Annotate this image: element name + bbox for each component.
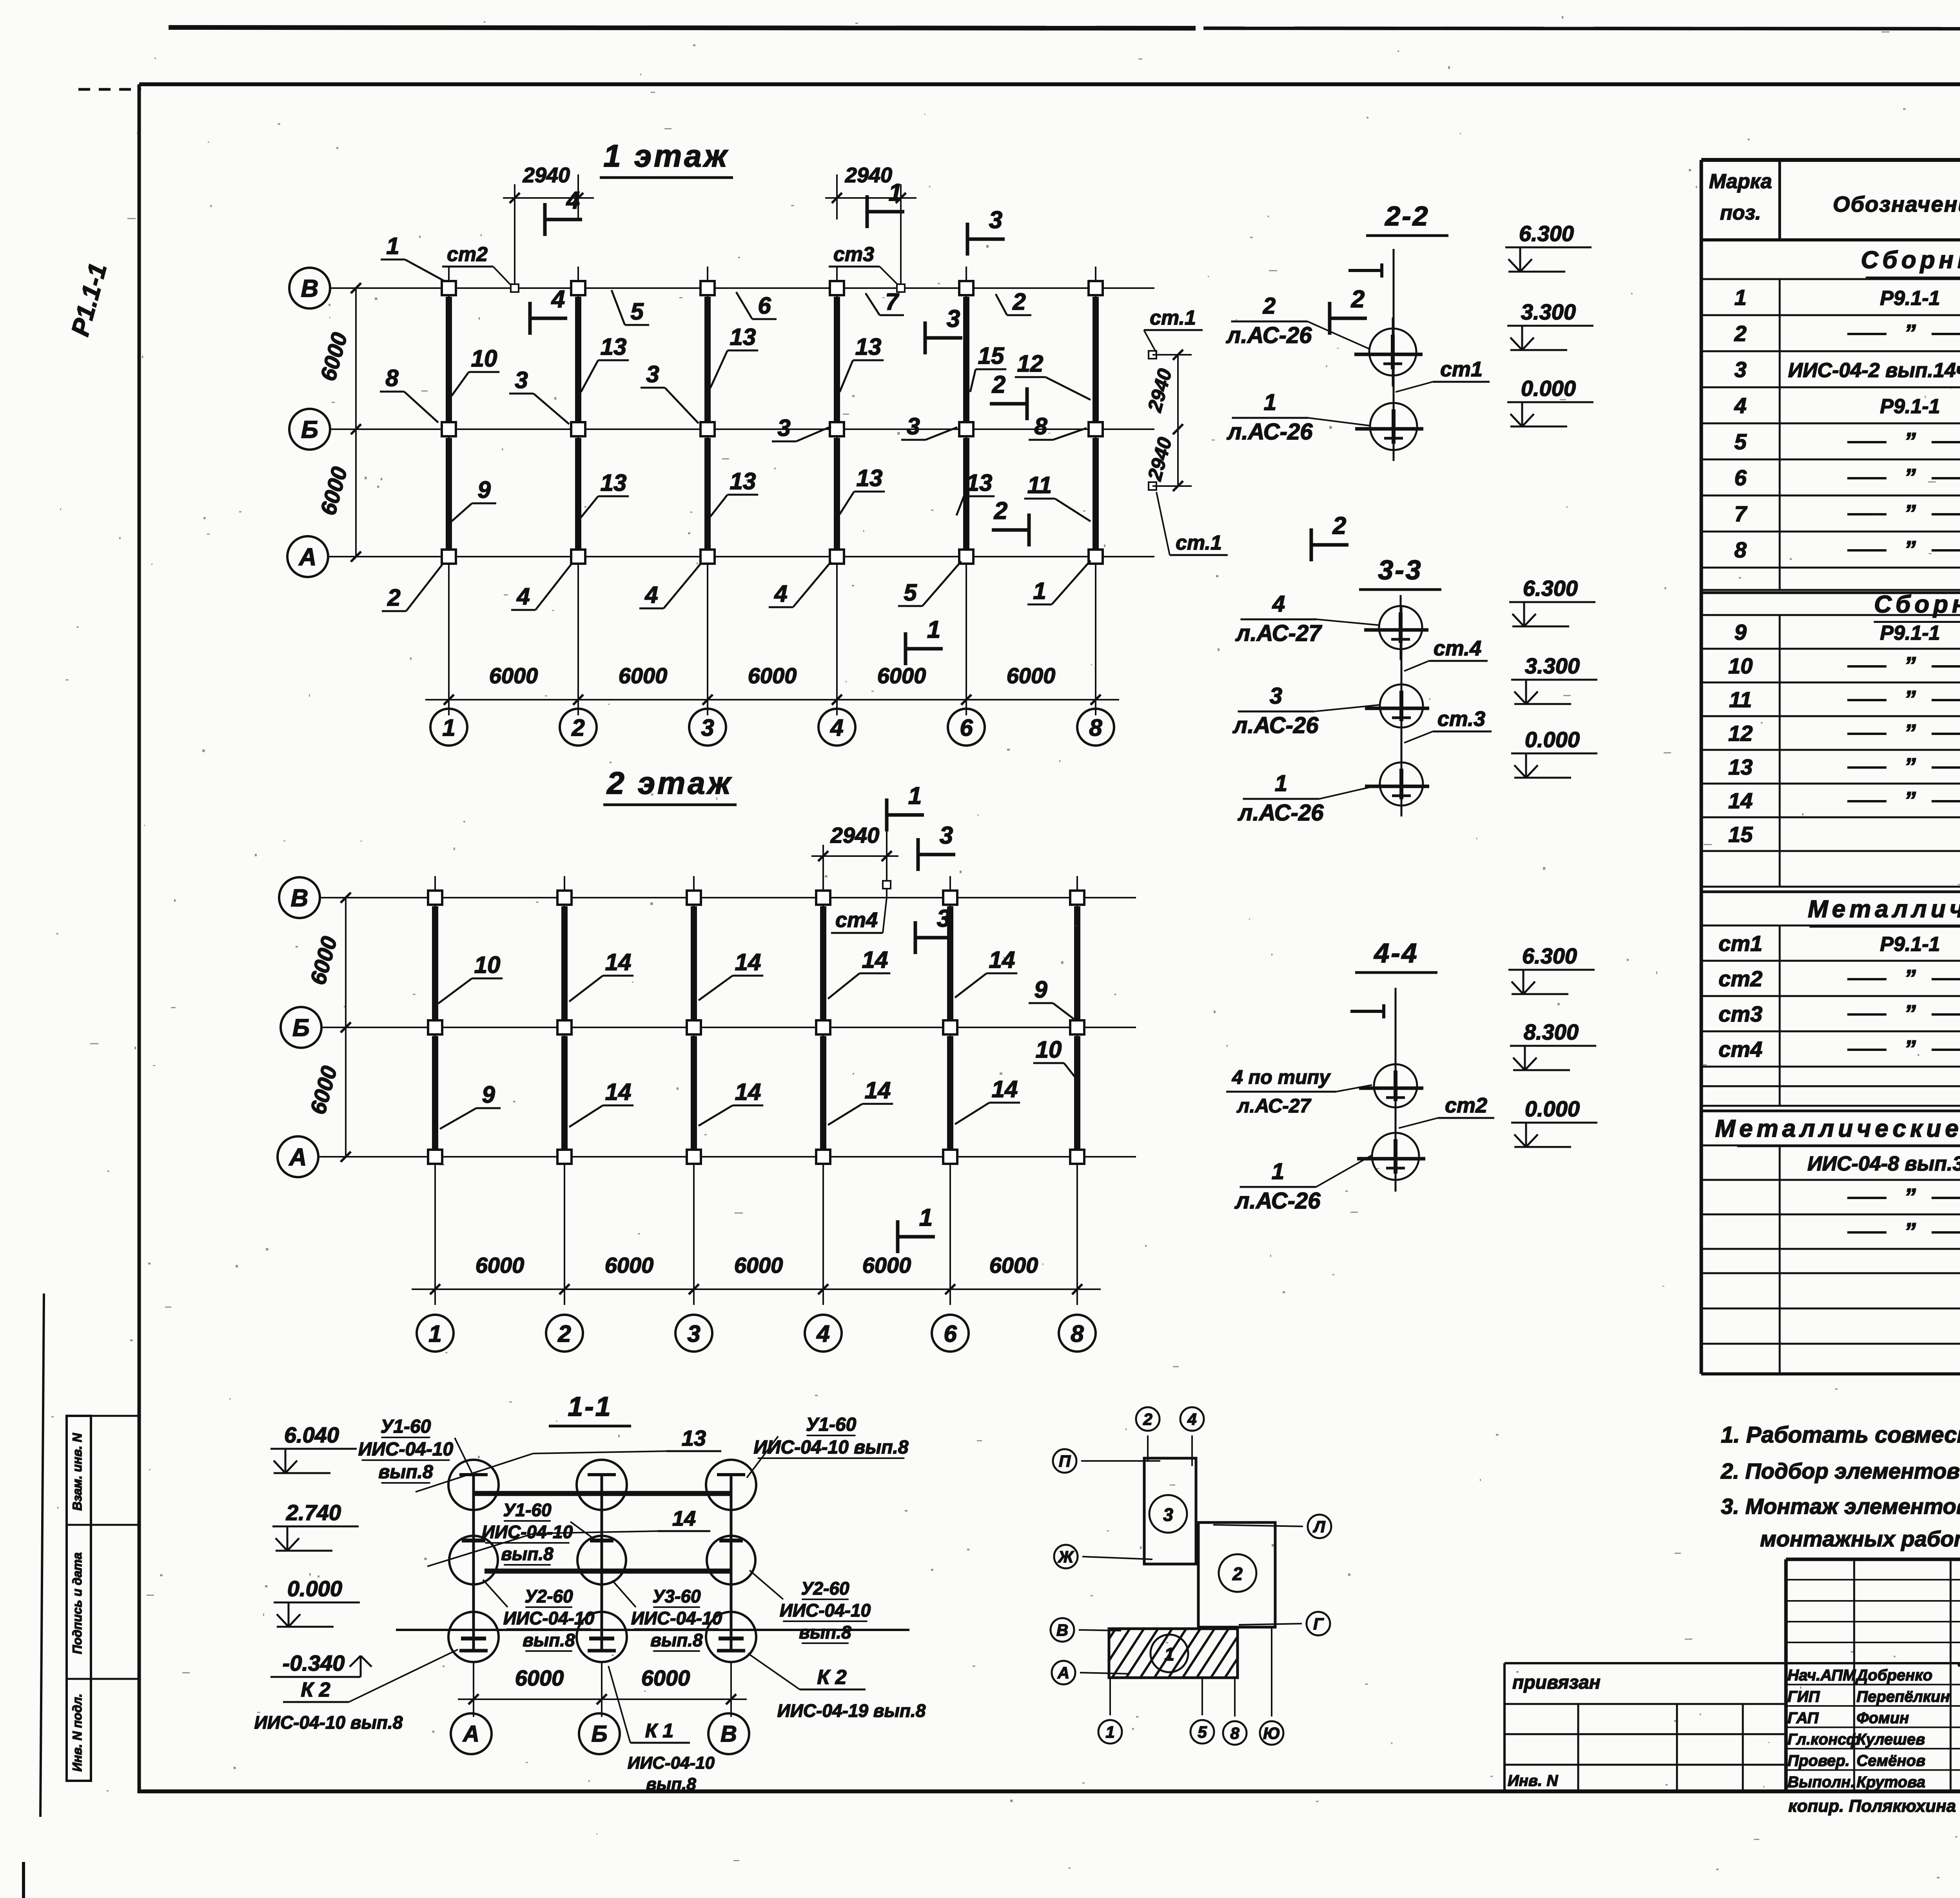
svg-text:8: 8 xyxy=(1034,413,1047,439)
svg-text:11: 11 xyxy=(1027,472,1052,498)
svg-text:1: 1 xyxy=(1033,578,1046,604)
svg-text:10: 10 xyxy=(471,345,497,372)
svg-text:”: ” xyxy=(1904,720,1916,746)
svg-text:Р9.1-1: Р9.1-1 xyxy=(1880,287,1940,310)
svg-text:Гл.консф: Гл.консф xyxy=(1788,1731,1860,1748)
svg-text:Г: Г xyxy=(1313,1615,1324,1633)
svg-text:ГАП: ГАП xyxy=(1788,1709,1819,1727)
svg-text:Ю: Ю xyxy=(1263,1724,1280,1742)
svg-text:”: ” xyxy=(1904,1218,1916,1245)
svg-text:2: 2 xyxy=(557,1321,571,1347)
svg-text:6: 6 xyxy=(944,1321,957,1347)
svg-text:Ж: Ж xyxy=(1058,1548,1074,1566)
svg-text:ст.3: ст.3 xyxy=(1437,707,1485,731)
svg-text:вып.8: вып.8 xyxy=(501,1544,554,1564)
svg-text:3: 3 xyxy=(1163,1504,1173,1525)
svg-text:Фомин: Фомин xyxy=(1857,1709,1909,1727)
svg-text:6: 6 xyxy=(960,715,973,741)
svg-text:4 по типу: 4 по типу xyxy=(1232,1066,1331,1088)
svg-text:8: 8 xyxy=(1071,1321,1084,1347)
svg-text:4: 4 xyxy=(830,715,843,741)
svg-text:2: 2 xyxy=(1012,289,1025,315)
svg-text:3: 3 xyxy=(989,207,1002,234)
svg-text:”: ” xyxy=(1904,787,1916,813)
svg-text:ст.1: ст.1 xyxy=(1176,532,1222,554)
svg-text:”: ” xyxy=(1904,320,1916,346)
svg-text:Металлические монтажные дета: Металлические монтажные детали (кг) xyxy=(1715,1115,1960,1142)
svg-text:14: 14 xyxy=(672,1507,696,1530)
svg-text:”: ” xyxy=(1904,464,1916,490)
svg-text:6000: 6000 xyxy=(748,663,797,688)
svg-text:4: 4 xyxy=(516,583,530,610)
svg-text:5: 5 xyxy=(630,298,644,325)
svg-text:6.300: 6.300 xyxy=(1519,221,1574,246)
svg-text:ИИС-04-19 вып.8: ИИС-04-19 вып.8 xyxy=(777,1700,926,1721)
svg-text:”: ” xyxy=(1904,753,1916,780)
svg-text:2: 2 xyxy=(1232,1564,1243,1584)
svg-text:Б: Б xyxy=(301,416,318,443)
svg-text:А: А xyxy=(462,1721,479,1747)
svg-text:В: В xyxy=(1056,1621,1068,1639)
svg-text:Р9.1-1: Р9.1-1 xyxy=(1880,395,1940,418)
svg-text:3: 3 xyxy=(940,822,953,849)
svg-text:13: 13 xyxy=(857,465,883,491)
svg-text:А: А xyxy=(289,1144,307,1171)
svg-text:ст3: ст3 xyxy=(1719,1002,1762,1026)
svg-text:13: 13 xyxy=(730,324,756,350)
svg-text:6.300: 6.300 xyxy=(1523,576,1578,601)
svg-text:1: 1 xyxy=(386,233,399,259)
svg-text:”: ” xyxy=(1904,686,1916,712)
svg-text:л.АС-26: л.АС-26 xyxy=(1226,323,1312,348)
svg-text:Добренко: Добренко xyxy=(1855,1667,1933,1684)
svg-text:ст1: ст1 xyxy=(1719,931,1762,956)
svg-text:6.300: 6.300 xyxy=(1522,944,1577,968)
svg-text:Подпись и дата: Подпись и дата xyxy=(70,1552,84,1654)
svg-text:Обозначение: Обозначение xyxy=(1833,192,1960,216)
svg-text:”: ” xyxy=(1904,536,1916,563)
svg-text:3-3: 3-3 xyxy=(1378,555,1422,585)
svg-text:ИИС-04-10: ИИС-04-10 xyxy=(628,1753,715,1773)
svg-text:л.АС-26: л.АС-26 xyxy=(1227,419,1313,445)
svg-text:А: А xyxy=(1057,1664,1069,1682)
svg-text:0.000: 0.000 xyxy=(1521,376,1576,401)
svg-text:3: 3 xyxy=(1734,357,1746,382)
svg-text:”: ” xyxy=(1904,652,1916,679)
svg-text:8: 8 xyxy=(1230,1724,1240,1742)
svg-text:В: В xyxy=(720,1721,737,1747)
svg-text:Семёнов: Семёнов xyxy=(1857,1752,1926,1769)
svg-text:9: 9 xyxy=(1734,620,1746,644)
svg-text:4: 4 xyxy=(644,582,658,608)
svg-text:К 2: К 2 xyxy=(817,1666,846,1689)
svg-text:3.300: 3.300 xyxy=(1521,299,1576,324)
svg-text:9: 9 xyxy=(482,1081,495,1108)
svg-text:6000: 6000 xyxy=(734,1253,783,1277)
svg-text:Б: Б xyxy=(292,1014,310,1042)
svg-text:1: 1 xyxy=(1734,285,1746,310)
svg-text:ст4: ст4 xyxy=(1719,1037,1762,1062)
svg-text:1: 1 xyxy=(919,1204,933,1231)
svg-text:-0.340: -0.340 xyxy=(283,1651,345,1675)
svg-text:10: 10 xyxy=(1728,653,1753,678)
svg-text:1: 1 xyxy=(889,179,902,206)
svg-text:ст2: ст2 xyxy=(1445,1094,1487,1117)
svg-text:6000: 6000 xyxy=(605,1253,654,1277)
svg-text:Взам. инв. N: Взам. инв. N xyxy=(70,1433,84,1511)
svg-text:13: 13 xyxy=(966,470,993,496)
svg-text:9: 9 xyxy=(1034,976,1047,1003)
svg-text:10: 10 xyxy=(474,952,501,978)
svg-text:2: 2 xyxy=(994,497,1007,524)
svg-text:4: 4 xyxy=(1734,393,1746,418)
svg-text:3: 3 xyxy=(646,361,659,387)
svg-text:ИИС-04-8 вып.3 Д.12: ИИС-04-8 вып.3 Д.12 xyxy=(1808,1152,1960,1175)
svg-text:У2-60: У2-60 xyxy=(524,1586,573,1606)
svg-text:6000: 6000 xyxy=(475,1253,524,1277)
svg-text:”: ” xyxy=(1904,500,1916,526)
svg-text:ИИС-04-10 вып.8: ИИС-04-10 вып.8 xyxy=(753,1437,908,1458)
svg-text:копир. Полякюхина: копир. Полякюхина xyxy=(1788,1796,1956,1816)
svg-text:4: 4 xyxy=(774,581,787,607)
svg-text:8: 8 xyxy=(1089,715,1102,741)
svg-text:вып.8: вып.8 xyxy=(378,1462,433,1482)
svg-text:6000: 6000 xyxy=(619,663,668,688)
svg-text:1 этаж: 1 этаж xyxy=(603,138,729,173)
svg-text:1: 1 xyxy=(428,1321,441,1347)
svg-text:Марка: Марка xyxy=(1709,170,1772,193)
svg-text:Сборные ж.б ригели: Сборные ж.б ригели xyxy=(1874,591,1960,618)
svg-text:6: 6 xyxy=(758,292,771,319)
svg-text:Выполн.: Выполн. xyxy=(1788,1774,1855,1791)
svg-text:11: 11 xyxy=(1729,687,1752,712)
svg-text:Перепёлкин: Перепёлкин xyxy=(1857,1688,1950,1706)
svg-text:”: ” xyxy=(1904,965,1916,991)
svg-text:2940: 2940 xyxy=(830,823,880,847)
svg-text:ст2: ст2 xyxy=(1719,966,1762,991)
svg-text:”: ” xyxy=(1904,1036,1916,1062)
svg-text:0.000: 0.000 xyxy=(287,1576,342,1601)
svg-text:13: 13 xyxy=(601,334,627,360)
svg-text:Сборные ж-б колонны: Сборные ж-б колонны xyxy=(1861,247,1960,274)
svg-text:П: П xyxy=(1059,1452,1071,1470)
svg-text:2.740: 2.740 xyxy=(286,1500,341,1525)
svg-text:3: 3 xyxy=(515,367,528,393)
svg-text:ст2: ст2 xyxy=(447,243,488,266)
svg-text:5: 5 xyxy=(1198,1723,1207,1741)
svg-text:5: 5 xyxy=(1734,429,1747,454)
svg-text:3: 3 xyxy=(1270,683,1282,709)
svg-text:ИИС-04-10: ИИС-04-10 xyxy=(780,1600,871,1620)
svg-text:6000: 6000 xyxy=(1007,663,1056,688)
svg-text:У1-60: У1-60 xyxy=(806,1414,857,1435)
svg-text:Нач.АПМ: Нач.АПМ xyxy=(1788,1667,1857,1684)
svg-text:2: 2 xyxy=(992,371,1005,398)
svg-text:Металлические изделия (кг): Металлические изделия (кг) xyxy=(1808,896,1960,923)
svg-text:4: 4 xyxy=(1187,1410,1196,1428)
svg-text:1: 1 xyxy=(1164,1644,1174,1664)
svg-text:л.АС-26: л.АС-26 xyxy=(1238,800,1324,826)
svg-text:1: 1 xyxy=(908,782,922,809)
svg-text:13: 13 xyxy=(730,468,756,494)
svg-text:У2-60: У2-60 xyxy=(801,1578,849,1599)
svg-text:Б: Б xyxy=(591,1721,607,1747)
svg-text:ИИС-04-2 вып.14часть1: ИИС-04-2 вып.14часть1 xyxy=(1788,359,1960,382)
svg-text:2: 2 xyxy=(1351,286,1365,313)
svg-text:ст.1: ст.1 xyxy=(1150,307,1196,329)
svg-text:2 этаж: 2 этаж xyxy=(606,766,733,800)
svg-text:0.000: 0.000 xyxy=(1525,1096,1580,1121)
svg-text:3.300: 3.300 xyxy=(1525,653,1580,678)
svg-text:4-4: 4-4 xyxy=(1373,938,1418,968)
svg-text:3: 3 xyxy=(907,413,920,439)
svg-text:13: 13 xyxy=(601,470,627,496)
svg-text:Провер.: Провер. xyxy=(1788,1752,1850,1769)
svg-text:2. Подбор элементов каркаса в: 2. Подбор элементов каркаса выполнен по … xyxy=(1720,1459,1960,1483)
svg-text:ИИС-04-10: ИИС-04-10 xyxy=(631,1608,722,1628)
svg-text:”: ” xyxy=(1904,1184,1916,1210)
svg-text:14: 14 xyxy=(735,1079,761,1105)
svg-text:л.АС-27: л.АС-27 xyxy=(1237,1095,1312,1117)
svg-text:6000: 6000 xyxy=(862,1253,911,1277)
svg-text:2940: 2940 xyxy=(845,163,892,187)
svg-text:6000: 6000 xyxy=(641,1666,690,1690)
svg-text:вып.8: вып.8 xyxy=(646,1775,696,1794)
svg-text:1: 1 xyxy=(927,616,940,643)
svg-text:1: 1 xyxy=(1105,1723,1114,1741)
svg-text:2: 2 xyxy=(571,715,584,741)
svg-text:л.АС-26: л.АС-26 xyxy=(1232,713,1319,738)
svg-text:вып.8: вып.8 xyxy=(650,1630,703,1650)
svg-text:6000: 6000 xyxy=(515,1666,564,1690)
svg-text:Крутова: Крутова xyxy=(1857,1774,1926,1791)
svg-text:6.040: 6.040 xyxy=(284,1423,339,1447)
svg-text:Инв. N: Инв. N xyxy=(1508,1772,1558,1789)
svg-text:10: 10 xyxy=(1036,1036,1062,1063)
svg-text:1: 1 xyxy=(442,715,455,741)
svg-text:3: 3 xyxy=(947,305,960,332)
svg-text:А: А xyxy=(298,544,317,571)
svg-text:В: В xyxy=(291,885,309,912)
svg-text:8: 8 xyxy=(1734,537,1747,562)
svg-text:2940: 2940 xyxy=(523,163,570,187)
svg-text:9: 9 xyxy=(477,477,491,503)
svg-text:привязан: привязан xyxy=(1512,1672,1601,1693)
svg-text:Р9.1-1: Р9.1-1 xyxy=(1880,622,1940,644)
svg-text:1: 1 xyxy=(1264,390,1276,415)
svg-text:1. Работать совместно с листа: 1. Работать совместно с листами АС-26 и … xyxy=(1721,1422,1960,1448)
svg-text:4: 4 xyxy=(566,187,580,214)
svg-text:14: 14 xyxy=(992,1076,1018,1102)
svg-text:13: 13 xyxy=(1728,755,1753,779)
svg-text:Р9.1-1: Р9.1-1 xyxy=(1880,933,1940,956)
svg-text:5: 5 xyxy=(904,579,917,606)
svg-text:1: 1 xyxy=(1275,771,1287,796)
svg-text:У1-60: У1-60 xyxy=(503,1500,552,1520)
svg-text:вып.8: вып.8 xyxy=(523,1630,575,1650)
svg-text:вып.8: вып.8 xyxy=(799,1622,851,1642)
svg-text:14: 14 xyxy=(605,1079,632,1105)
svg-text:7: 7 xyxy=(1734,501,1748,526)
svg-text:ст1: ст1 xyxy=(1440,357,1483,381)
svg-text:3: 3 xyxy=(937,905,950,932)
svg-text:2: 2 xyxy=(1263,293,1276,319)
svg-text:”: ” xyxy=(1904,428,1916,454)
svg-text:монтажных работ в зимних услов: монтажных работ в зимних условиях см. се… xyxy=(1760,1526,1960,1551)
svg-text:3: 3 xyxy=(777,415,790,441)
svg-text:1-1: 1-1 xyxy=(568,1391,612,1422)
svg-text:3: 3 xyxy=(687,1321,700,1347)
svg-text:”: ” xyxy=(1904,1000,1916,1027)
svg-text:л.АС-26: л.АС-26 xyxy=(1234,1188,1321,1214)
svg-text:ст.4: ст.4 xyxy=(1434,637,1481,660)
svg-text:14: 14 xyxy=(862,947,888,973)
svg-text:0.000: 0.000 xyxy=(1525,727,1580,752)
svg-text:13: 13 xyxy=(682,1426,706,1450)
svg-text:Кулешев: Кулешев xyxy=(1857,1731,1925,1748)
svg-text:13: 13 xyxy=(855,334,882,360)
svg-text:14: 14 xyxy=(865,1077,891,1103)
svg-text:6000: 6000 xyxy=(989,1253,1038,1277)
svg-text:У3-60: У3-60 xyxy=(652,1586,701,1606)
svg-text:6000: 6000 xyxy=(489,663,538,688)
svg-text:2-2: 2-2 xyxy=(1384,201,1429,231)
svg-text:К 2: К 2 xyxy=(301,1678,330,1701)
svg-text:Л: Л xyxy=(1313,1517,1326,1536)
svg-text:ИИС-04-10: ИИС-04-10 xyxy=(358,1439,454,1460)
svg-text:8.300: 8.300 xyxy=(1524,1020,1579,1044)
svg-text:15: 15 xyxy=(978,343,1005,369)
svg-text:4: 4 xyxy=(816,1321,829,1347)
svg-text:2: 2 xyxy=(387,584,400,611)
svg-text:4: 4 xyxy=(551,286,565,313)
svg-text:8: 8 xyxy=(385,365,399,391)
svg-text:6: 6 xyxy=(1734,465,1747,490)
svg-text:Инв. N подл.: Инв. N подл. xyxy=(70,1693,84,1771)
svg-text:У1-60: У1-60 xyxy=(381,1416,431,1437)
svg-text:12: 12 xyxy=(1017,350,1044,377)
svg-text:1: 1 xyxy=(1272,1159,1284,1184)
svg-text:14: 14 xyxy=(1728,788,1753,813)
svg-text:2: 2 xyxy=(1332,512,1346,539)
svg-text:2: 2 xyxy=(1734,321,1746,346)
svg-text:ИИС-04-10: ИИС-04-10 xyxy=(482,1522,573,1542)
svg-text:7: 7 xyxy=(885,289,899,315)
svg-text:ИИС-04-10: ИИС-04-10 xyxy=(503,1608,595,1628)
svg-text:ИИС-04-10 вып.8: ИИС-04-10 вып.8 xyxy=(254,1712,403,1733)
svg-text:ст4: ст4 xyxy=(835,908,878,932)
svg-text:л.АС-27: л.АС-27 xyxy=(1235,621,1323,646)
svg-text:В: В xyxy=(301,275,319,302)
svg-text:К 1: К 1 xyxy=(645,1720,673,1742)
svg-text:2: 2 xyxy=(1143,1410,1152,1428)
svg-text:поз.: поз. xyxy=(1720,201,1761,224)
svg-text:12: 12 xyxy=(1728,721,1753,746)
svg-text:14: 14 xyxy=(735,949,761,975)
svg-text:ГИП: ГИП xyxy=(1788,1688,1820,1706)
svg-text:4: 4 xyxy=(1272,591,1285,617)
svg-text:3. Монтаж элементов каркаса,о: 3. Монтаж элементов каркаса,общие требов… xyxy=(1721,1494,1960,1519)
svg-text:ст3: ст3 xyxy=(833,243,874,266)
svg-text:14: 14 xyxy=(989,947,1015,973)
svg-text:3: 3 xyxy=(701,715,714,741)
svg-text:6000: 6000 xyxy=(877,663,926,688)
svg-text:14: 14 xyxy=(605,949,632,975)
svg-text:15: 15 xyxy=(1728,822,1753,847)
